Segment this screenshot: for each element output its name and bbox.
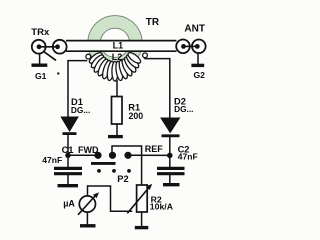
svg-text:200: 200 [129, 111, 144, 121]
ground R1 [108, 135, 123, 138]
speck artifact [57, 72, 59, 74]
svg-text:TRx: TRx [31, 27, 50, 38]
potentiometer R2 [137, 185, 148, 212]
wire meter to ground [86, 212, 88, 224]
wire D2 to REF node [169, 137, 171, 154]
wire TRx to ground G1 [39, 54, 41, 64]
meter M1 microammeter [78, 192, 99, 215]
wire FWD node to switch contact [68, 154, 94, 156]
wire L2 left end to D1 [68, 61, 87, 117]
switch P2 contact common [109, 152, 116, 159]
diode D1 [61, 117, 78, 134]
capacitor C1 [54, 157, 82, 184]
wire meter to R2 wiper [88, 186, 132, 211]
wire REF node to switch contact [132, 154, 170, 156]
svg-text:G2: G2 [194, 70, 206, 80]
svg-text:L1: L1 [113, 40, 124, 50]
resistor R1 [112, 97, 123, 125]
wire R1 to ground [116, 124, 118, 135]
capacitor C2 [157, 157, 185, 183]
svg-text:REF: REF [145, 144, 164, 154]
svg-text:DG...: DG... [71, 105, 90, 115]
ground meter [80, 224, 96, 227]
connector ANT [176, 40, 205, 54]
transformer TR toroid core [88, 16, 142, 70]
switch P2 pole wire to R2 [112, 146, 142, 185]
svg-text:10k/A: 10k/A [150, 202, 174, 212]
winding L2 loops [86, 51, 148, 81]
svg-text:C1: C1 [62, 145, 74, 155]
diode D2 [161, 118, 180, 136]
node REF junction [167, 153, 173, 159]
svg-text:TR: TR [146, 17, 160, 28]
connector TRx shield stub [44, 51, 56, 60]
switch P2 contact REF [124, 152, 131, 159]
wire L2 centre tap to R1 [116, 81, 118, 97]
svg-text:ANT: ANT [184, 24, 205, 35]
wire L2 right end to D2 [145, 59, 170, 118]
wire ANT to ground G2 [197, 53, 199, 65]
svg-text:47nF: 47nF [178, 151, 198, 161]
ground C1 [58, 184, 79, 187]
svg-text:DG...: DG... [174, 104, 193, 114]
switch P2 lever bar [91, 162, 116, 165]
node FWD junction [65, 153, 71, 159]
wire R2 to ground [141, 212, 143, 226]
svg-text:P2: P2 [117, 174, 128, 184]
connector TRx [32, 40, 67, 54]
svg-text:µA: µA [63, 198, 75, 208]
switch P2 second row contact dots [97, 169, 131, 173]
svg-text:L2: L2 [112, 52, 123, 62]
svg-text:47nF: 47nF [42, 155, 62, 165]
ground G2 [191, 64, 204, 67]
ground R2 [135, 226, 149, 229]
switch P2 contact FWD [94, 152, 101, 159]
wire D1 to FWD node [67, 135, 69, 154]
svg-text:G1: G1 [35, 71, 47, 81]
ground G1 [32, 63, 48, 66]
wire L1 through-line band [66, 41, 177, 52]
potentiometer R2 wiper arrow [127, 184, 152, 213]
ground C2 [163, 183, 180, 186]
